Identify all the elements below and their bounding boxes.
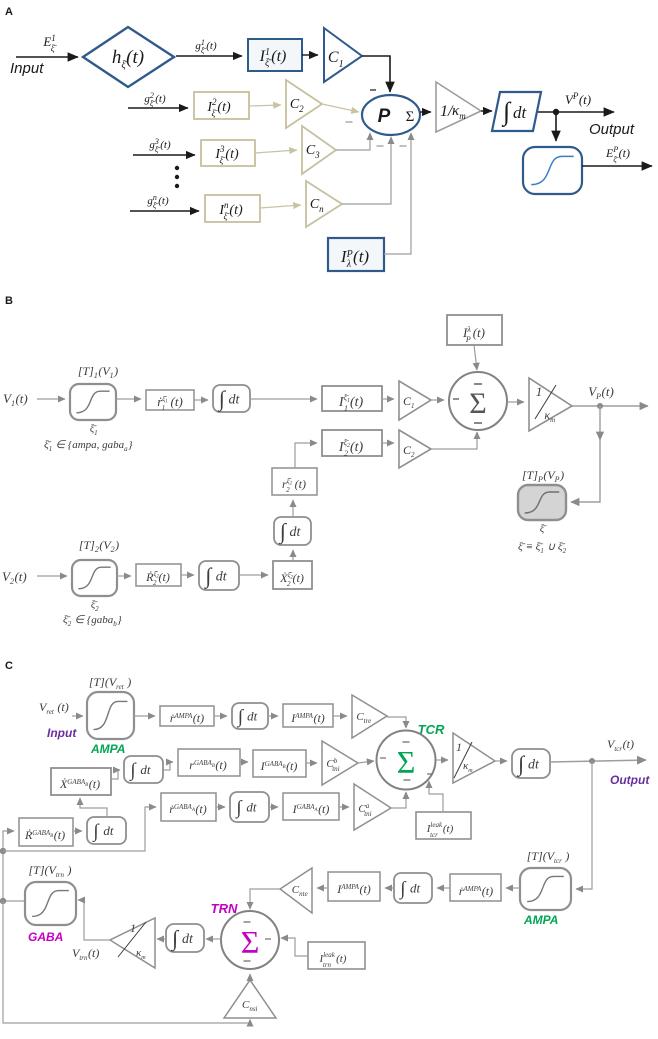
wire g3 arrow [133,154,195,156]
block r1 dot [146,390,194,410]
gain 1/km triangle TRN [110,918,155,968]
sign minus bottom-left [377,145,384,147]
wire integrator TRN to gain [157,938,166,940]
wire left feedback vertical [3,831,14,901]
gain 1/km triangle B [529,378,572,431]
integrator dt block B1 [213,385,250,412]
integrator parallelogram [492,92,541,131]
wire sum to gain B [507,401,524,403]
block I_lambda^P intrinsic current [328,238,384,271]
svg-text:[T](Vtcr​ ): [T](Vtcr​ ) [527,849,570,865]
wire Vtcr output [550,760,646,762]
wire C1 to sum B [431,399,444,401]
wire C1 to summator P [362,56,390,92]
wire I_lambda to summator [384,133,411,254]
svg-text:VP​(t): VP​(t) [588,384,614,401]
svg-text:V1​(t): V1​(t) [3,391,28,408]
wire I2 to C2 [249,105,281,106]
wire rGABAB to IGABAB [240,761,248,763]
integrator dt block C2 [124,756,163,783]
wire down feedback B [599,406,601,440]
gain C1 triangle B [399,381,431,420]
block I GABAA [283,793,339,820]
wire Cnsi to TRN sum [249,974,251,980]
wire gain TRN to GABA box [78,900,110,940]
svg-text:dt: dt [528,757,540,772]
gain Ctre triangle [352,695,387,738]
sign minus left [346,121,353,123]
svg-text:Output: Output [589,121,635,138]
summator TRN circle [221,911,279,969]
junction dot B [597,403,603,409]
node vertical dots [175,166,179,188]
summator TCR circle [377,731,436,790]
wire R to integrator C4 [73,830,82,832]
wire TRN to integrator [206,938,221,940]
wire Ctre to TCR sum [387,717,406,728]
wire gain to integrator TCR [495,760,507,762]
block R2 dot [136,564,181,586]
block r GABAB [178,749,240,776]
block Xdot GABAB [51,768,111,795]
gain C2 triangle B [399,430,431,468]
wire VP output arrow [538,111,614,113]
svg-text:Σ: Σ [469,387,486,420]
svg-text:AMPA: AMPA [523,913,558,927]
summator sigma circle B [449,372,507,430]
svg-text:[T](Vret​ ): [T](Vret​ ) [89,675,131,691]
wire IGABAA to Ctni a [339,806,349,808]
svg-text:dt: dt [182,932,194,947]
wire I1 to C1 B [382,398,394,400]
block I AMPA tcr [283,704,333,727]
integrator dt block C4 [87,817,126,844]
wire rAMPA trn to integrator [437,887,450,889]
wire rAMPA to integrator C1 [214,715,227,717]
wire gain to integrator [481,110,492,112]
block X2 B [273,561,312,589]
svg-text:GABA: GABA [28,930,63,944]
gain C3 triangle [302,126,336,174]
wire R2 to integrator3 [181,574,194,576]
block I1 synaptic current [248,39,302,71]
block I tcr leak [416,812,471,839]
svg-text:C: C [5,660,13,672]
wire X to integrator C2 [111,770,120,779]
integrator dt block B2 [274,517,311,545]
gain 1/km triangle TCR [453,733,495,783]
block I_P^lambda B [447,315,502,345]
junction dot C [589,758,595,764]
svg-text:B: B [5,295,13,307]
svg-text:Σ: Σ [406,109,415,125]
svg-text:1: 1 [536,384,543,399]
wire IP to sum B [474,345,477,370]
svg-text:I2ξ̄​(t): I2ξ̄​(t) [206,97,231,118]
wire transfer1 to r1 [116,398,141,400]
integrator dt block TRN [166,924,204,952]
wire left vertical down [3,901,250,1023]
wire IAMPA trn to Cnte [317,887,328,889]
wire feedback down right [576,761,592,889]
integrator dt block B3 [199,561,239,590]
integrator dt block TCR [512,749,550,778]
svg-text:A: A [5,6,13,18]
wire TCR to gain [436,759,448,761]
wire C2 to summator [322,104,359,112]
svg-text:1: 1 [456,740,462,754]
block rdot AMPA [160,706,214,726]
svg-text:[T](Vtrn​ ): [T](Vtrn​ ) [28,863,71,879]
svg-text:Vret​ (t): Vret​ (t) [39,700,69,716]
wire summator to gain [420,111,431,113]
transfer [T]2 sigmoid block [72,560,117,596]
wire Cn to summator [342,137,391,204]
wire integrator to IGABAA [269,806,278,808]
wire gn arrow [130,210,199,212]
wire transfer to rAMPA [134,715,155,717]
svg-text:P: P [378,106,391,127]
junction dot [553,109,559,115]
wire r2 to I2 [295,443,317,468]
wire Cnte to TRN sum [250,889,280,909]
svg-text:dt: dt [103,823,114,838]
wire g2 arrow [128,107,188,109]
gain C2 triangle [286,80,322,128]
wire VP output B [572,405,648,407]
wire GABA box to left vertical [3,900,25,902]
sign minus top [370,89,376,91]
gain 1/km triangle [436,82,481,132]
gain Ctni b triangle [322,741,358,785]
svg-text:Inξ̄​(t): Inξ̄​(t) [218,200,243,221]
block I2 current B [322,430,382,456]
block I AMPA trn [328,872,380,901]
block I trn leak [308,942,365,969]
svg-text:ξ̄1​ ∈ {ampa, gabaa​}: ξ̄1​ ∈ {ampa, gabaa​} [44,439,133,453]
wire Itcr leak to TCR sum [429,781,443,812]
wire V2 to transfer2 [37,575,67,577]
wire integrator2 to r2 [292,500,294,517]
wire integrator to rGABAB [163,762,173,770]
transfer h_xi(t) diamond H1 [83,27,174,87]
sigmoid transfer block A [523,147,582,194]
wire rGABAA to integrator C3 [216,806,225,808]
gain C1 triangle [324,28,362,82]
wire X2 to integrator2 [292,550,294,561]
block I3 synaptic current [201,140,255,166]
gain Cnte triangle [280,868,312,913]
wire Itrn leak to TRN sum [281,938,308,956]
wire I1 to C1 [302,54,318,56]
wire down to sigmoid [555,112,557,141]
wire C3 to summator [336,133,370,150]
svg-text:V2​(t): V2​(t) [2,569,27,586]
integrator dt block C1 [232,703,268,729]
transfer [T]1 sigmoid block [70,384,116,420]
transfer [T]P sigmoid block gray [518,485,566,520]
integrator dt block C3 [230,792,269,822]
svg-text:TRN: TRN [211,901,238,916]
wire integrator TRN2 to IAMPA [385,887,394,889]
wire V1 to transfer [37,398,65,400]
svg-text:1: 1 [130,921,136,935]
block I GABAB [253,750,306,777]
svg-text:AMPA: AMPA [90,742,125,756]
wire input arrow [16,56,78,58]
wire left to rGABAA row [3,807,156,851]
integrator dt block TRN2 [394,873,432,903]
wire IGABAB to Ctni b [306,762,317,764]
svg-text:I3ξ̄​(t): I3ξ̄​(t) [214,144,239,165]
svg-text:Input: Input [10,60,44,77]
wire IAMPA to Ctre [333,715,347,717]
summator P ellipse [362,95,420,135]
wire integrator C4 to X [80,798,107,817]
svg-text:dt: dt [513,103,528,122]
wire I2 to C2 B [382,442,394,444]
wire r1 to integrator [194,399,208,401]
wire Ctni b to TCR sum [358,761,374,763]
block r2 B [272,468,317,495]
wire EP output arrow [582,165,652,167]
block rdot GABAA [161,793,216,821]
block I1 current B [322,386,382,411]
block rdot AMPA trn [450,874,501,901]
wire I3 to C3 [255,150,297,153]
wire Ctni a to TCR sum [391,792,406,808]
svg-text:Σ: Σ [241,924,260,960]
wire g1 arrow [176,55,242,57]
wire In to Cn [260,205,301,208]
wire transfer2 to R2 [117,575,131,577]
svg-text:dt: dt [290,525,302,540]
block I2 synaptic current [194,92,249,119]
gain Cnsi triangle [224,980,276,1018]
svg-text:dt: dt [140,762,151,777]
wire sigmoid right to rAMPA trn [506,887,520,889]
svg-text:dt: dt [410,881,421,896]
wire integrator to IAMPA [268,715,278,717]
transfer [T](Vret) sigmoid [87,692,134,739]
transfer [T](Vtrn) sigmoid GABA [25,882,76,925]
wire integrator to I1 [250,398,317,400]
svg-text:Input: Input [47,726,77,740]
svg-text:dt: dt [216,569,228,584]
svg-text:Output: Output [610,773,650,787]
wire Vret to transfer [72,715,83,717]
wire C2 to sum bottom B [431,432,477,449]
gain Cn triangle [306,181,342,227]
svg-text:dt: dt [246,800,257,815]
svg-text:dt: dt [229,392,241,407]
svg-text:dt: dt [247,709,258,724]
gain Ctni a triangle [354,784,391,830]
svg-text:hξ̄​(t): hξ̄​(t) [112,47,144,71]
svg-text:Σ: Σ [397,744,416,780]
svg-text:VP​(t): VP​(t) [565,91,591,107]
transfer [T](Vtcr) sigmoid AMPA right [520,868,571,910]
block Rdot GABAB left [19,818,73,846]
block In synaptic current [205,195,260,222]
wire integrator3 to X2 [239,574,268,576]
junction dot left 901 [0,898,6,904]
junction dot left 851 [0,848,6,854]
sign minus bottom-right [400,145,407,147]
